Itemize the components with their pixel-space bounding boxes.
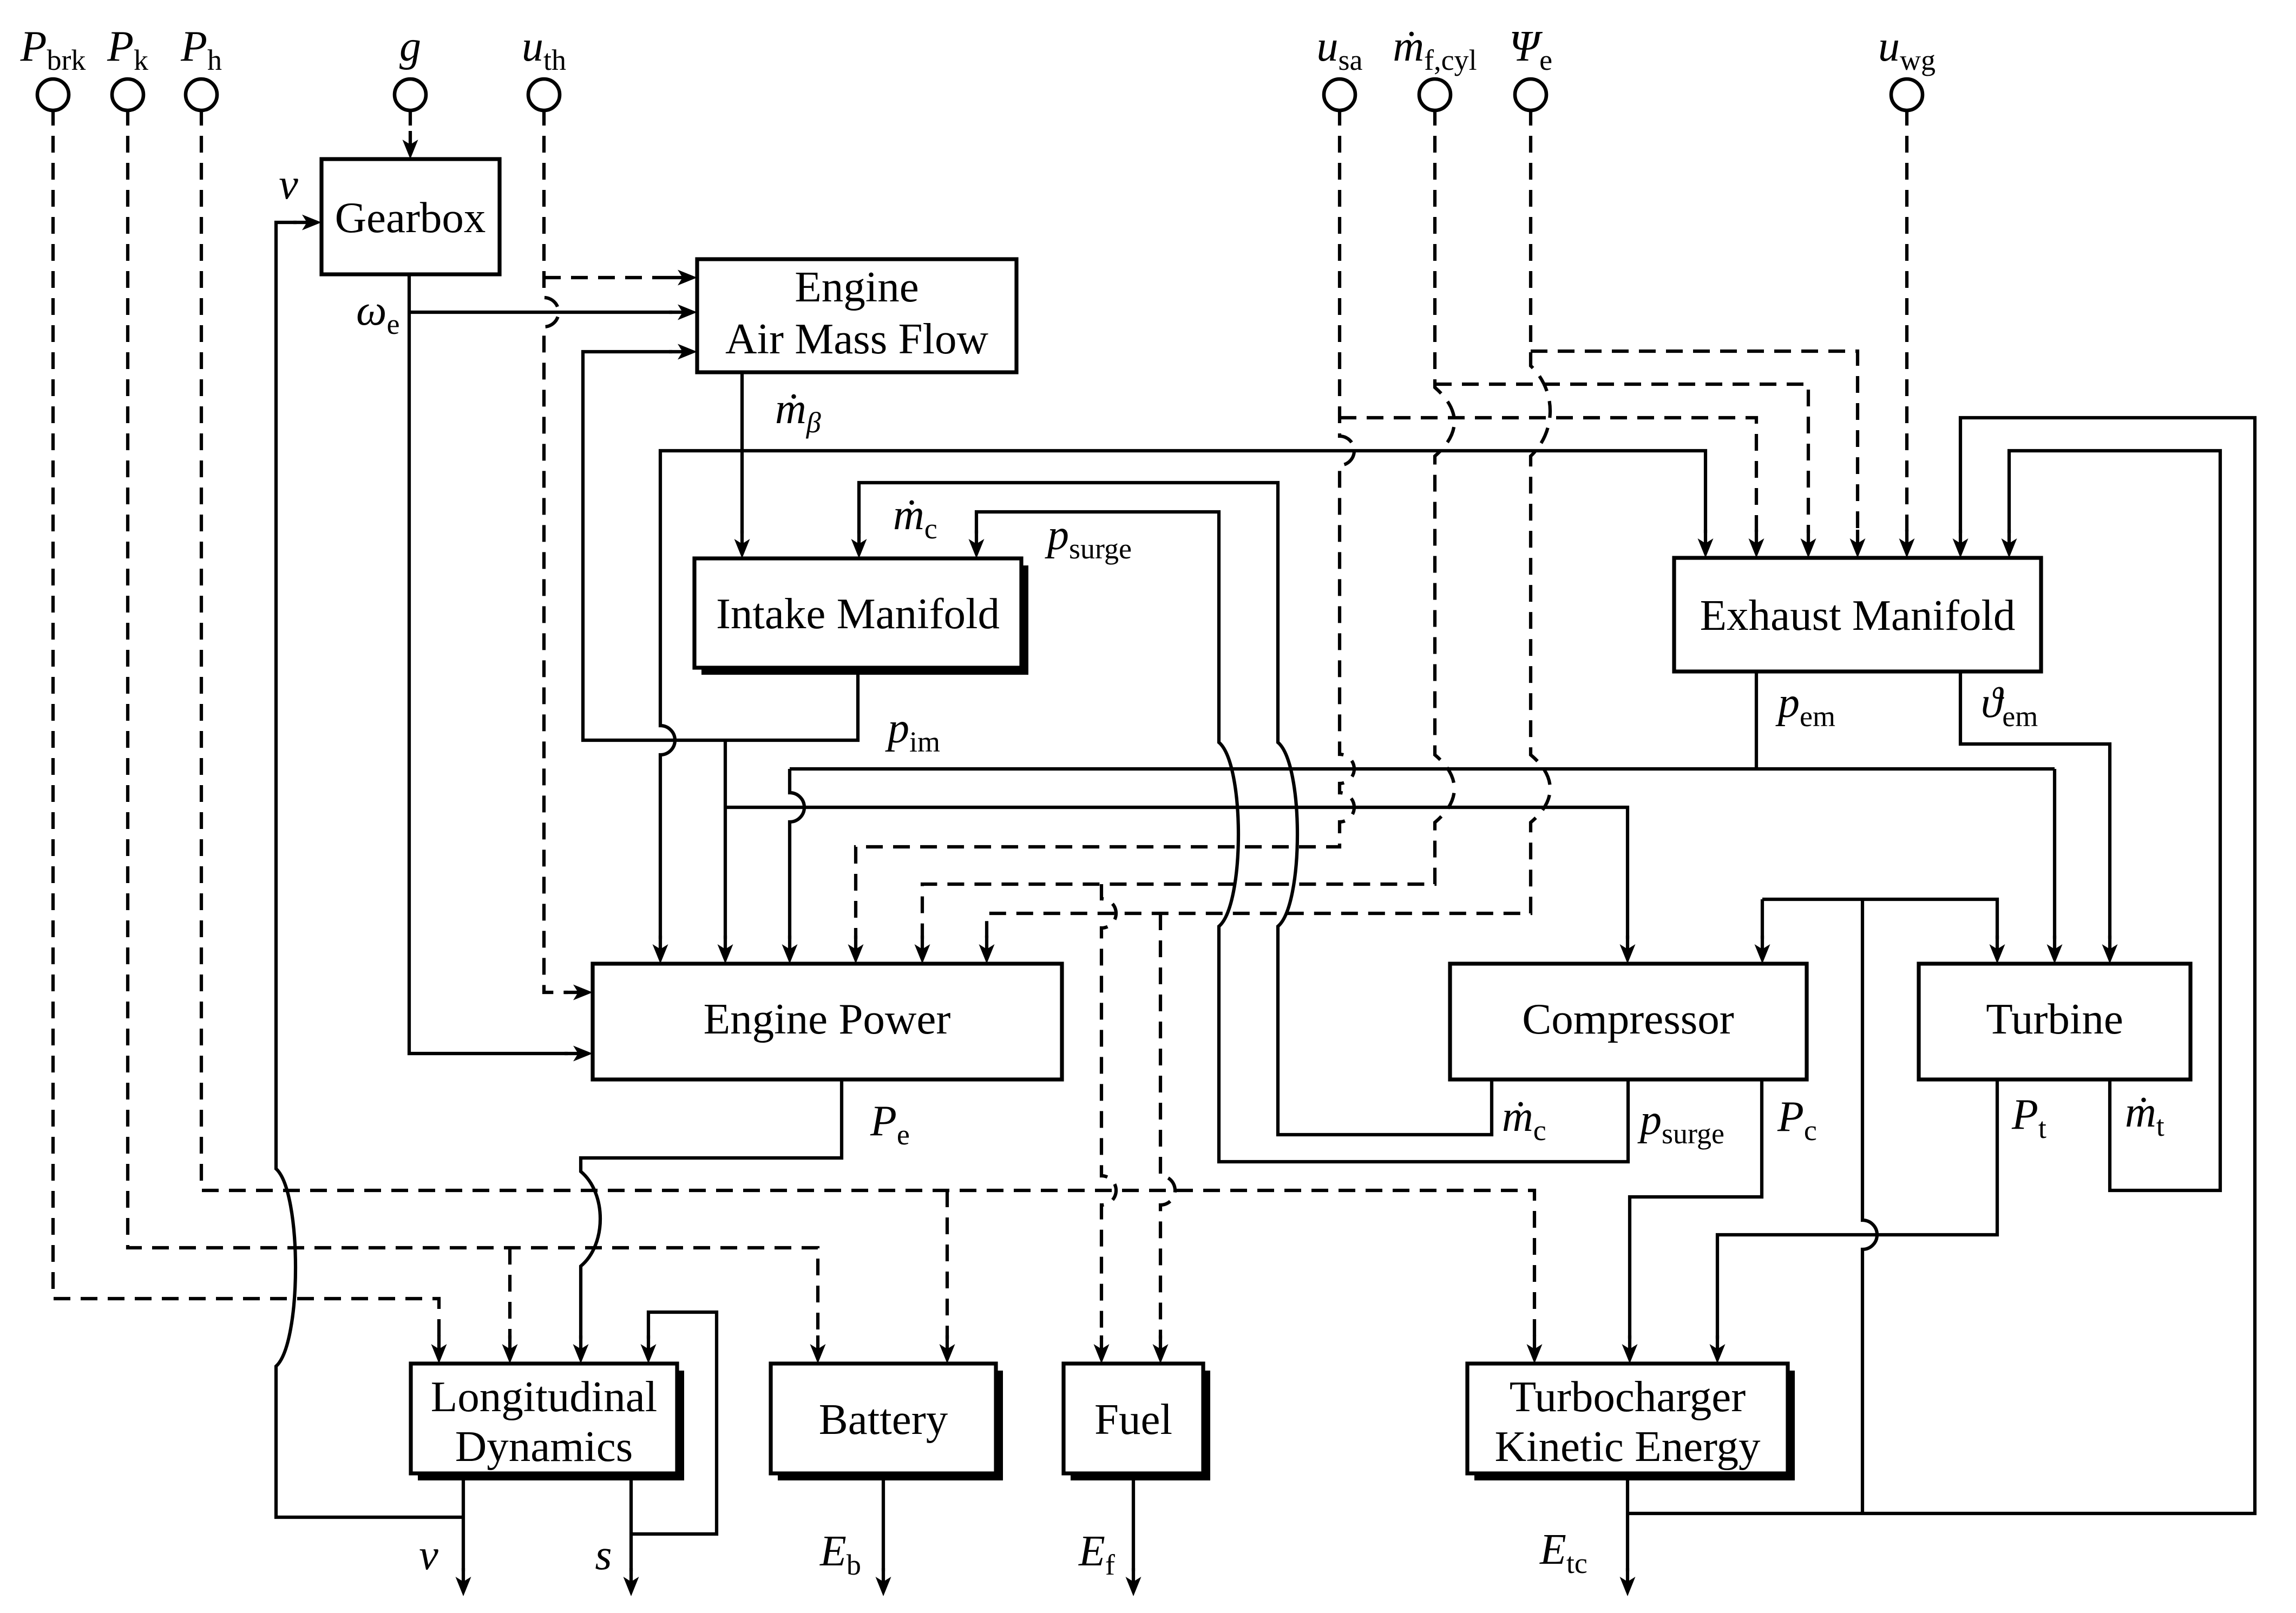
block Exhaust Manifold <box>1674 558 2041 671</box>
block Fuel <box>1071 1371 1210 1480</box>
block Gearbox <box>322 159 500 274</box>
wire mdot_t from Turbine to Exhaust Manifold <box>2009 451 2220 1190</box>
wire g to Gearbox (dashed) <box>409 109 412 134</box>
wire E_b output of Battery <box>882 1473 885 1571</box>
wire u_sa to Exhaust Manifold and Engine Power (dashed) <box>856 109 1354 939</box>
block Engine Power <box>593 964 1062 1079</box>
input terminal P_h <box>186 79 217 110</box>
wire mdot_beta from Engine Air Mass Flow to Intake Manifold <box>740 372 744 534</box>
wire u_th to Engine Air Mass Flow and Engine Power (dashed) <box>544 109 568 992</box>
wire v feedback to Gearbox <box>276 222 463 1517</box>
block Longitudinal Dynamics <box>418 1371 684 1480</box>
wire P_e from Engine Power to Longitudinal Dynamics <box>581 1079 842 1339</box>
wire p_surge from Compressor to Intake Manifold <box>976 512 1628 1162</box>
block Compressor <box>1450 964 1807 1079</box>
svg-text:Kinetic Energy: Kinetic Energy <box>1494 1422 1761 1471</box>
input terminal u_sa <box>1324 79 1355 110</box>
input terminal Psi_e <box>1515 79 1546 110</box>
input terminal P_k <box>112 79 143 110</box>
block Battery <box>778 1371 1003 1480</box>
svg-text:Engine: Engine <box>795 262 919 311</box>
svg-text:Intake Manifold: Intake Manifold <box>716 589 1000 638</box>
svg-text:g: g <box>399 23 421 70</box>
wire v output of Longitudinal Dynamics <box>462 1473 465 1571</box>
block Turbine <box>1919 964 2190 1079</box>
wire p_im branch to Engine Power <box>724 740 727 939</box>
block Turbocharger Kinetic Energy <box>1474 1371 1795 1480</box>
wire p_im from Intake Manifold to Engine Air Mass Flow <box>583 352 858 740</box>
wire P_h to Battery and Turbocharger (dashed) <box>201 109 1534 1339</box>
input terminal g <box>395 79 426 110</box>
wire E_tc output and turbo speed feedback <box>1626 1473 1629 1571</box>
svg-text:Dynamics: Dynamics <box>455 1422 633 1471</box>
svg-text:Turbocharger: Turbocharger <box>1510 1372 1746 1421</box>
svg-text:Exhaust Manifold: Exhaust Manifold <box>1700 591 2016 640</box>
wire Psi_e to Exhaust Manifold, Engine Power and Fuel (dashed) <box>987 109 1550 939</box>
svg-text:v: v <box>419 1531 438 1579</box>
svg-text:Longitudinal: Longitudinal <box>431 1372 657 1421</box>
wire mdot_beta rail to Engine Power and Exhaust Manifold <box>660 451 742 939</box>
wire P_c from Compressor to Turbocharger <box>1630 1079 1762 1339</box>
wire s output and feedback loop of Longitudinal Dynamics <box>629 1473 633 1571</box>
block Intake Manifold <box>701 565 1028 675</box>
wire theta_em from Exhaust Manifold to Turbine <box>1960 671 2110 939</box>
input terminal u_wg <box>1891 79 1923 110</box>
input terminal P_brk <box>37 79 69 110</box>
svg-text:Battery: Battery <box>819 1395 948 1444</box>
wire P_t from Turbine to Turbocharger <box>1717 1079 1997 1339</box>
wire E_f output of Fuel <box>1132 1473 1135 1571</box>
svg-text:Engine Power: Engine Power <box>704 995 951 1043</box>
wire P_k to Longitudinal Dynamics and Battery (dashed) <box>128 109 818 1339</box>
svg-text:s: s <box>595 1531 612 1579</box>
wire mdot_f_cyl to Exhaust Manifold, Engine Power and Fuel (dashed) <box>922 109 1454 939</box>
input terminal u_th <box>528 79 560 110</box>
wire mdot_c from Compressor to Intake Manifold <box>859 483 1492 1135</box>
svg-text:Air Mass Flow: Air Mass Flow <box>725 314 989 363</box>
wire p_im branch to Compressor <box>725 807 1628 939</box>
input terminal mdot_f_cyl <box>1419 79 1451 110</box>
wire omega_e from Gearbox to Engine Air Mass Flow and Engine Power <box>409 274 568 1054</box>
wire P_brk to Longitudinal Dynamics (dashed) <box>53 109 439 1339</box>
svg-text:Turbine: Turbine <box>1986 995 2123 1043</box>
wire p_em from Exhaust Manifold to Engine Power and Turbine <box>1755 671 1758 769</box>
block Engine Air Mass Flow <box>697 259 1016 372</box>
svg-text:Fuel: Fuel <box>1094 1395 1172 1444</box>
wire u_wg to Exhaust Manifold (dashed) <box>1905 109 1908 533</box>
svg-text:v: v <box>279 161 298 208</box>
svg-text:Compressor: Compressor <box>1522 995 1734 1043</box>
svg-text:Gearbox: Gearbox <box>335 193 486 242</box>
